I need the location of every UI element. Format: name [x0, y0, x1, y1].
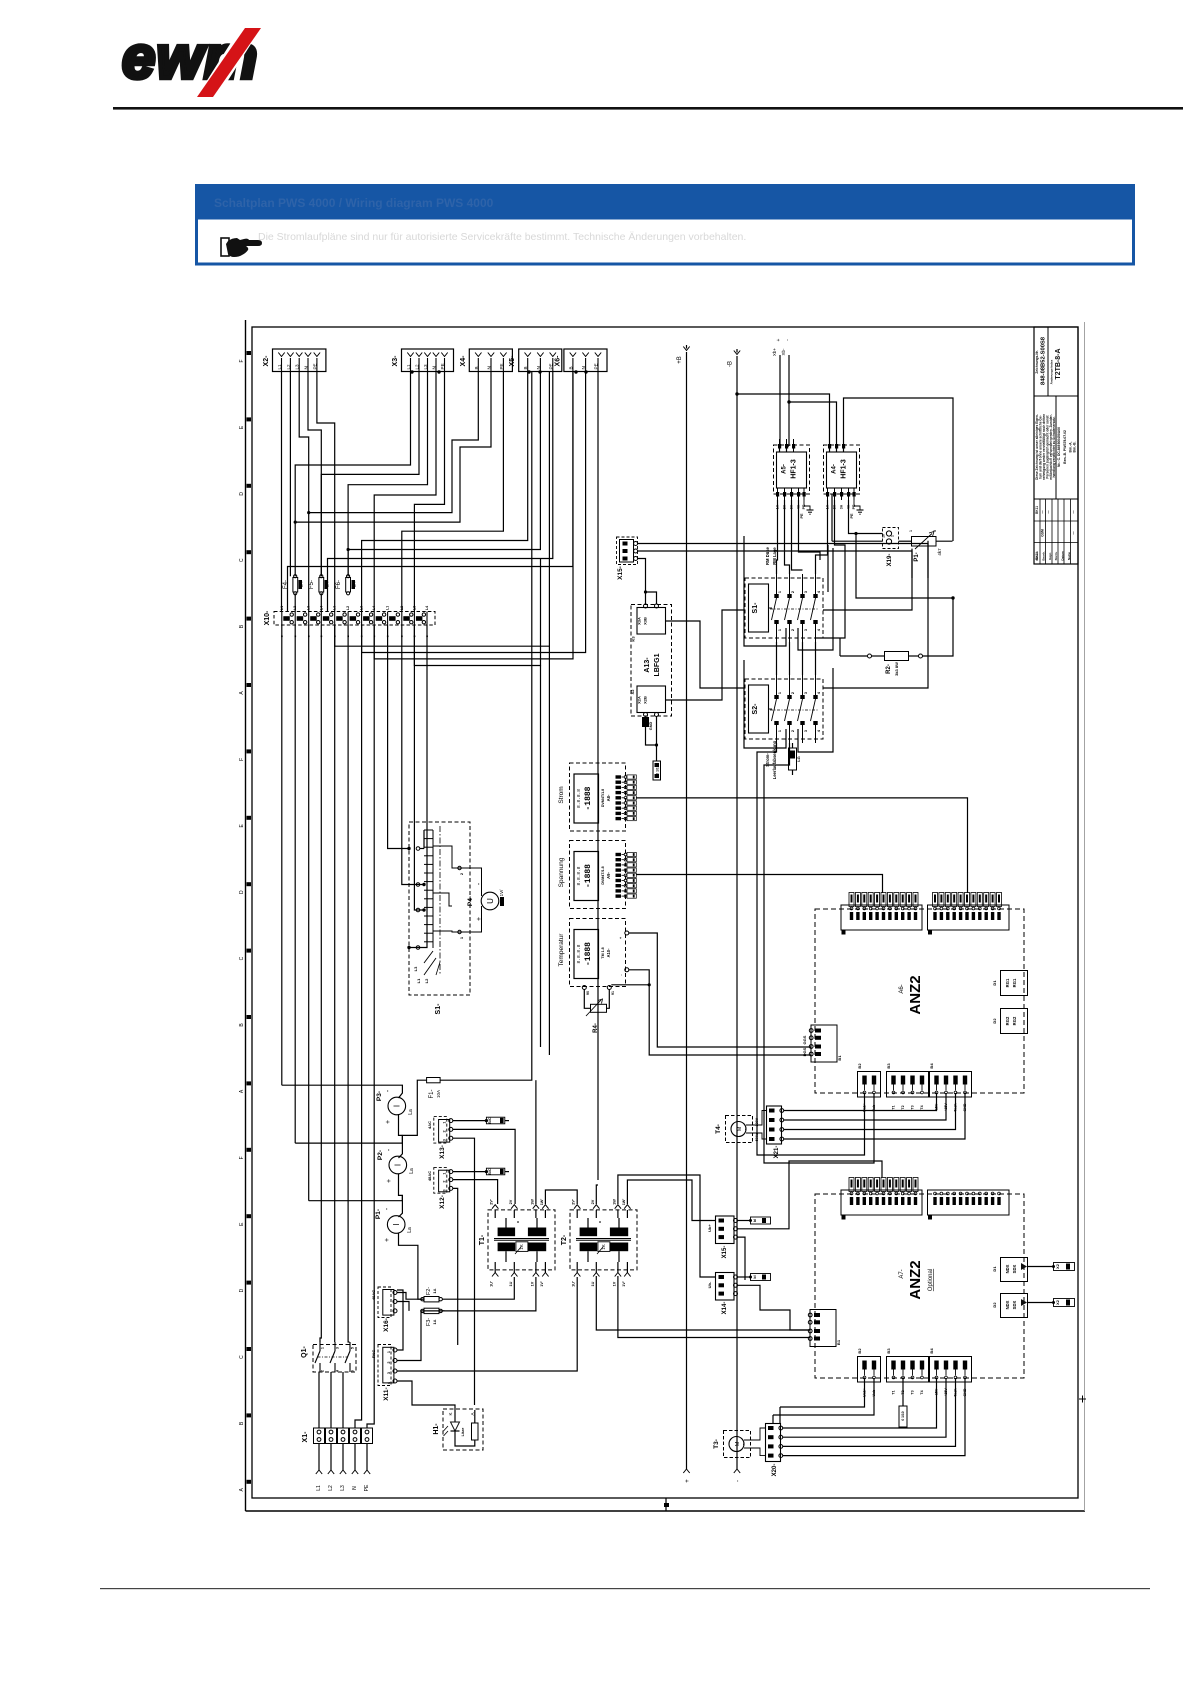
svg-text:SDX: SDX	[1012, 1300, 1017, 1309]
svg-text:X3-: X3-	[392, 355, 399, 367]
svg-text:T2: T2	[901, 1105, 905, 1109]
welding output +B rail	[677, 345, 691, 1483]
svg-text:K: K	[448, 1412, 453, 1415]
ANZ2 lower bottom connectors	[858, 1357, 881, 1383]
svg-text:D2: D2	[992, 1302, 997, 1308]
svg-text:L3: L3	[340, 1485, 346, 1491]
svg-text:T4-: T4-	[715, 1124, 722, 1134]
wires Temperatur display to ANZ	[629, 933, 811, 1047]
svg-text:1: 1	[778, 730, 782, 732]
svg-text:R4-: R4-	[593, 1023, 599, 1033]
pointing hand icon	[221, 238, 262, 257]
svg-text:B2: B2	[857, 1063, 862, 1069]
svg-text:3: 3	[443, 1139, 447, 1141]
svg-text:PE: PE	[364, 1484, 370, 1491]
svg-text:10A: 10A	[436, 1090, 441, 1098]
connector X13	[427, 1117, 515, 1405]
svg-text:91: 91	[611, 991, 615, 995]
svg-text:N: N	[432, 366, 437, 369]
wire loops around S2	[744, 660, 786, 748]
svg-text:2: 2	[443, 1181, 447, 1183]
svg-text:1: 1	[778, 692, 782, 694]
svg-text:F6-: F6-	[336, 580, 342, 589]
svg-text:848-08B52-S00S8: 848-08B52-S00S8	[1041, 336, 1047, 385]
svg-text:1: 1	[321, 1347, 325, 1349]
ground symbol at A5-	[800, 500, 814, 519]
svg-text:GGS: GGS	[802, 1035, 807, 1044]
svg-text:A10-: A10-	[606, 948, 611, 958]
svg-text:Ben.-B. PWS78.07.02: Ben.-B. PWS78.07.02	[1063, 430, 1067, 464]
resistor R2	[840, 596, 955, 676]
svg-text:D1: D1	[992, 980, 997, 986]
svg-text:NDX: NDX	[1005, 1300, 1010, 1309]
connector X4-	[460, 349, 513, 372]
svg-text:ANZ2: ANZ2	[907, 1260, 924, 1299]
svg-text:LBFG1: LBFG1	[654, 653, 661, 676]
svg-text:I: I	[393, 1105, 402, 1107]
svg-text:3A: 3A	[840, 504, 844, 509]
svg-text:L1: L1	[316, 1485, 322, 1491]
svg-text:Strom: Strom	[558, 786, 565, 803]
svg-text:2V: 2V	[591, 1199, 595, 1204]
svg-text:+: +	[384, 1238, 391, 1242]
svg-text:X2B: X2B	[643, 696, 648, 704]
svg-text:1U': 1U'	[490, 1281, 494, 1287]
potentiometer P1 (remote)	[909, 530, 942, 562]
svg-text:B1: B1	[836, 1339, 841, 1345]
junction dots on connector pins	[410, 370, 413, 373]
wires from X2 to X10	[281, 372, 283, 612]
indicator lamp H1	[433, 1409, 483, 1450]
svg-text:1V': 1V'	[540, 1281, 544, 1287]
footer rule	[100, 1588, 1150, 1589]
ANZ2 lower top pin header left	[841, 1178, 922, 1220]
svg-text:2: 2	[443, 1130, 447, 1132]
display board ANZ2 lower	[815, 1194, 1024, 1378]
fan T3 with connector X20	[713, 1424, 783, 1477]
svg-text:T3: T3	[911, 1390, 915, 1394]
svg-text:B4: B4	[929, 1063, 934, 1069]
svg-text:Q1-: Q1-	[301, 1345, 308, 1357]
svg-text:PE: PE	[594, 363, 599, 369]
svg-text:ANZ2: ANZ2	[907, 975, 924, 1014]
svg-text:o: o	[516, 1221, 520, 1223]
svg-text:B2: B2	[857, 1348, 862, 1354]
svg-text:1: 1	[443, 1173, 447, 1175]
svg-text:Datum: Datum	[1061, 551, 1065, 561]
svg-text:PE: PE	[850, 513, 854, 519]
svg-text:La: La	[407, 1227, 413, 1233]
svg-text:X15-: X15-	[617, 566, 624, 580]
svg-text:L2: L2	[424, 978, 429, 983]
wires below X10 stepping right	[335, 372, 550, 647]
svg-text:50Hz: 50Hz	[755, 1133, 759, 1142]
svg-text:+: +	[386, 1179, 393, 1183]
svg-text:T2TB-8-A: T2TB-8-A	[1055, 348, 1062, 379]
svg-text:3: 3	[933, 530, 937, 532]
svg-text:6: 6	[351, 1370, 355, 1372]
svg-text:PE: PE	[548, 363, 553, 369]
voltmeter P4	[458, 866, 504, 939]
wires from A13 to S1/S2	[646, 592, 657, 605]
svg-text:N: N	[581, 366, 586, 369]
svg-text:X16-: X16-	[383, 1318, 390, 1332]
svg-text:bl: bl	[753, 1275, 757, 1278]
svg-text:X21-: X21-	[774, 1146, 780, 1159]
svg-text:1: 1	[387, 1351, 391, 1353]
svg-text:X4-: X4-	[460, 355, 467, 367]
svg-text:A7-: A7-	[899, 1269, 905, 1278]
svg-text:T1: T1	[892, 1390, 896, 1394]
svg-text:+: +	[776, 338, 782, 341]
svg-text:1U: 1U	[591, 1281, 595, 1286]
svg-text:L2: L2	[415, 364, 420, 370]
svg-text:X3A: X3A	[637, 617, 642, 625]
svg-text:1V/: 1V/	[499, 889, 504, 897]
svg-text:3: 3	[804, 692, 808, 694]
HF filter board A5-	[774, 439, 810, 509]
svg-text:D1: D1	[992, 1266, 997, 1272]
svg-text:L2: L2	[286, 364, 291, 370]
svg-text:B4: B4	[929, 1348, 934, 1354]
digital display Temperatur	[558, 919, 629, 995]
svg-text:2: 2	[791, 629, 795, 631]
svg-text:X14-: X14-	[722, 1302, 728, 1315]
svg-text:F1-: F1-	[429, 1089, 435, 1098]
wires T2 to fan connectors	[627, 1180, 712, 1221]
svg-text:L3: L3	[295, 364, 300, 370]
svg-text:A5-: A5-	[782, 464, 788, 474]
X20 to ANZ2 lower wires	[783, 1378, 937, 1428]
svg-text:PE: PE	[312, 363, 317, 369]
svg-text:1V': 1V'	[622, 1281, 626, 1287]
ANZ2 upper bottom wires	[757, 743, 865, 1155]
sense wires Xb+ Xb-	[772, 338, 791, 446]
svg-text:2V': 2V'	[572, 1199, 576, 1205]
svg-text:Änderungs-Index: Änderungs-Index	[1050, 359, 1054, 384]
svg-text:X11-: X11-	[383, 1387, 390, 1400]
svg-text:2V: 2V	[509, 1199, 513, 1204]
svg-text:B3: B3	[886, 1348, 891, 1354]
digital display Spannung	[558, 841, 626, 909]
svg-text:~: ~	[744, 1127, 750, 1130]
svg-text:1V: 1V	[612, 1281, 616, 1286]
svg-text:F5-: F5-	[309, 580, 315, 589]
svg-text:B3: B3	[886, 1063, 891, 1069]
svg-text:X19-: X19-	[887, 554, 893, 567]
svg-text:B1: B1	[837, 1055, 842, 1061]
svg-text:3: 3	[387, 1372, 391, 1374]
svg-text:1: 1	[443, 1122, 447, 1124]
svg-text:3k3 8W: 3k3 8W	[894, 662, 899, 676]
fuse F6	[336, 575, 357, 595]
ANZ2 upper bottom connectors	[858, 1072, 881, 1098]
svg-text:bl: bl	[753, 1219, 757, 1222]
svg-text:C: C	[239, 558, 245, 562]
svg-text:4k7: 4k7	[937, 548, 942, 556]
svg-text:2: 2	[791, 730, 795, 732]
svg-text:handlung verpflichtet zu Schad: handlung verpflichtet zu Schadenersatz.	[1052, 416, 1056, 477]
ANZ2 upper top pin header left	[841, 893, 922, 935]
svg-text:A9-: A9-	[606, 872, 611, 879]
svg-text:X2A: X2A	[637, 696, 642, 704]
svg-text:X1-: X1-	[302, 1431, 309, 1443]
svg-text:-1888: -1888	[584, 786, 593, 810]
svg-text:L2: L2	[346, 606, 350, 610]
svg-text:2: 2	[387, 1361, 391, 1363]
svg-text:A4-: A4-	[832, 464, 838, 474]
svg-text:Name: Name	[1067, 552, 1071, 561]
svg-text:8.8.8.8: 8.8.8.8	[576, 944, 582, 963]
svg-text:Datum: Datum	[1035, 551, 1039, 561]
svg-text:Optional: Optional	[928, 1269, 934, 1291]
svg-text:DGS: DGS	[802, 1047, 807, 1056]
svg-text:D: D	[239, 1288, 245, 1292]
HF filter board A4-	[824, 439, 860, 509]
svg-text:RG2: RG2	[1005, 1016, 1010, 1025]
svg-text:DVM4T/1.8: DVM4T/1.8	[601, 789, 605, 807]
thermistor R4	[584, 983, 651, 1033]
svg-text:Bm.-B.: Bm.-B.	[1073, 441, 1077, 452]
svg-text:Litze: Litze	[461, 1428, 465, 1437]
wires from bundle to ANZ combs	[540, 666, 542, 1048]
svg-text:3: 3	[443, 1189, 447, 1191]
svg-text:Ub+: Ub+	[707, 1224, 712, 1232]
svg-text:48AC: 48AC	[427, 1171, 432, 1181]
svg-text:N: N	[352, 1486, 358, 1490]
svg-text:+B: +B	[677, 356, 683, 364]
svg-text:2: 2	[791, 591, 795, 593]
display output wires	[636, 798, 967, 893]
svg-text:RG1: RG1	[1012, 978, 1017, 987]
link connector below S2	[789, 743, 802, 770]
svg-text:L4: L4	[425, 606, 429, 610]
connector X16	[371, 1287, 424, 1332]
svg-text:L1: L1	[406, 364, 411, 370]
svg-text:GSM: GSM	[1041, 529, 1045, 537]
staircase wires X3/X4/X5 to X10	[295, 372, 410, 577]
wires to HF boards	[779, 446, 782, 452]
long vertical wire bundle	[281, 625, 283, 1085]
svg-text:L1: L1	[416, 978, 421, 983]
svg-text:L1: L1	[277, 364, 282, 370]
svg-text:PE: PE	[499, 363, 504, 369]
svg-text:X2-: X2-	[263, 355, 270, 367]
svg-text:H1-: H1-	[433, 1423, 440, 1435]
ammeter P3	[282, 1085, 414, 1135]
svg-text:S2-: S2-	[752, 703, 759, 715]
svg-text:M: M	[737, 1126, 743, 1131]
transformer T1-	[479, 1199, 555, 1287]
wires X19/P1 loop	[832, 540, 883, 542]
svg-text:X2: X2	[1056, 1300, 1060, 1305]
svg-text:L3: L3	[423, 364, 428, 370]
svg-text:P1-: P1-	[375, 1209, 382, 1219]
svg-text:La: La	[409, 1168, 415, 1174]
circuit breaker Q1	[301, 1342, 356, 1372]
svg-text:+: +	[385, 1120, 392, 1124]
connector X19	[882, 528, 899, 567]
svg-text:DVM4T/1.8: DVM4T/1.8	[601, 866, 605, 884]
svg-text:1: 1	[778, 629, 782, 631]
control board A13 LBFG1	[630, 604, 672, 761]
ANZ2 upper relay outputs	[992, 971, 1028, 1034]
svg-text:RG1: RG1	[1005, 978, 1010, 987]
svg-text:N: N	[304, 366, 309, 369]
connector X2-	[263, 349, 326, 372]
svg-text:1W: 1W	[530, 1199, 534, 1205]
svg-text:P1-: P1-	[914, 552, 920, 561]
ammeter P2	[377, 1148, 415, 1217]
svg-text:R2-: R2-	[886, 664, 892, 674]
svg-text:Die Stromlaufpläne sind nur fü: Die Stromlaufpläne sind nur für autorisi…	[258, 231, 746, 243]
svg-text:0 1/10: 0 1/10	[901, 1411, 905, 1420]
svg-text:T2-: T2-	[561, 1234, 568, 1245]
display board ANZ2 upper	[815, 909, 1024, 1093]
svg-text:PE: PE	[440, 363, 445, 369]
svg-text:-: -	[736, 1480, 742, 1482]
svg-text:5: 5	[351, 1347, 355, 1349]
svg-text:B: B	[568, 366, 573, 369]
svg-text:D2: D2	[992, 1018, 997, 1024]
svg-text:T1: T1	[892, 1105, 896, 1109]
svg-text:F: F	[239, 1156, 245, 1159]
svg-text:L1: L1	[386, 606, 390, 610]
svg-text:Xb-: Xb-	[781, 348, 786, 356]
svg-text:Schaltplan PWS 4000 / Wiring d: Schaltplan PWS 4000 / Wiring diagram PWS…	[214, 196, 494, 210]
transformer T2-	[561, 1199, 637, 1287]
ewm company logo	[122, 24, 263, 101]
ANZ2 upper top pin header right	[928, 893, 1010, 935]
svg-text:Zeichnungs-Nr.: Zeichnungs-Nr.	[1035, 350, 1039, 373]
svg-text:T3: T3	[911, 1105, 915, 1109]
ANZ2 upper left connector	[811, 1025, 837, 1062]
svg-text:D: D	[239, 890, 245, 894]
svg-text:-B: -B	[728, 361, 734, 367]
svg-text:X5-: X5-	[509, 355, 516, 367]
svg-text:2V': 2V'	[490, 1199, 494, 1205]
svg-text:SDX: SDX	[1012, 1264, 1017, 1273]
svg-text:X13-: X13-	[439, 1145, 446, 1159]
welding output -B rail	[728, 349, 742, 1482]
svg-text:1A: 1A	[432, 1288, 437, 1293]
svg-text:3: 3	[804, 591, 808, 593]
svg-text:3: 3	[804, 730, 808, 732]
connector X3-	[392, 349, 454, 372]
svg-text:S1-: S1-	[435, 1003, 442, 1015]
svg-text:X2: X2	[630, 689, 635, 695]
jumper plug below A13	[653, 761, 661, 780]
svg-text:8.8.8.8: 8.8.8.8	[576, 866, 582, 885]
svg-text:4AC: 4AC	[427, 1121, 432, 1129]
fuse F2	[421, 1277, 515, 1302]
svg-text:P4-: P4-	[467, 896, 474, 906]
connector X14 fan supply	[707, 1273, 810, 1331]
svg-text:2: 2	[321, 1370, 325, 1372]
ANZ2 lower bottom wires	[780, 1378, 865, 1407]
svg-text:PNC: PNC	[371, 1350, 376, 1359]
ground symbol at A4-	[850, 500, 864, 519]
svg-text:S1-: S1-	[752, 602, 759, 614]
title block	[1034, 327, 1078, 564]
svg-text:C: C	[239, 956, 245, 960]
svg-text:X20-: X20-	[772, 1464, 778, 1477]
svg-text:T4: T4	[920, 1105, 924, 1109]
svg-text:B/C: B/C	[488, 1117, 492, 1124]
wire loops around S1	[744, 536, 786, 646]
svg-text:1A: 1A	[432, 1319, 437, 1324]
rotary switch S1-	[745, 546, 823, 642]
svg-text:B/C: B/C	[488, 1168, 492, 1175]
tap switch S1	[407, 822, 470, 1014]
drawing frame	[239, 320, 1086, 1511]
svg-text:3: 3	[804, 629, 808, 631]
connector X15 control	[617, 537, 929, 605]
svg-text:TM 1.8: TM 1.8	[601, 947, 605, 958]
terminal strip X10	[264, 606, 435, 637]
svg-text:Temperatur: Temperatur	[558, 933, 565, 967]
svg-text:N: N	[536, 366, 541, 369]
svg-text:X12-: X12-	[439, 1195, 446, 1209]
svg-text:NDX: NDX	[1005, 1264, 1010, 1273]
ANZ2 lower relay outputs with wires	[992, 1258, 1075, 1318]
svg-text:U: U	[486, 898, 495, 904]
svg-text:X2: X2	[1056, 1264, 1060, 1269]
blue heading bar	[195, 184, 1135, 218]
svg-text:o: o	[598, 1221, 602, 1223]
svg-text:-1888: -1888	[584, 942, 593, 966]
svg-text:1: 1	[778, 591, 782, 593]
svg-text:C: C	[239, 1355, 245, 1359]
svg-text:8.8.8.8: 8.8.8.8	[576, 789, 582, 808]
ANZ2 lower top pin header right	[928, 1190, 1010, 1220]
svg-text:1W': 1W'	[540, 1199, 544, 1206]
svg-text:90: 90	[586, 991, 590, 995]
jumper below lower ANZ2	[902, 1378, 904, 1406]
svg-text:2: 2	[791, 692, 795, 694]
fan T4 with connector X21	[715, 1106, 784, 1158]
connector X6-	[554, 349, 607, 372]
fuse F4	[283, 575, 304, 595]
svg-text:K3: K3	[631, 636, 636, 642]
digital display Strom	[558, 763, 626, 831]
svg-text:T1-: T1-	[479, 1234, 486, 1245]
svg-text:Norm.: Norm.	[1054, 552, 1058, 561]
svg-text:Spannung: Spannung	[558, 857, 565, 887]
svg-text:N: N	[487, 366, 492, 369]
svg-text:Xb+: Xb+	[772, 348, 777, 357]
rotary switch S2-	[745, 675, 823, 743]
svg-text:T3-: T3-	[713, 1439, 720, 1449]
fuse F5	[309, 575, 330, 595]
svg-text:RM Düse: RM Düse	[765, 546, 770, 565]
svg-text:Gepr.: Gepr.	[1048, 552, 1052, 560]
svg-text:10: 10	[882, 534, 886, 538]
svg-text:GND: GND	[649, 722, 653, 731]
fuse F3	[421, 1277, 536, 1326]
fuse F1	[399, 372, 532, 1158]
X21 to ANZ2 wires	[784, 1093, 937, 1111]
ANZ2 lower left connector	[810, 1310, 836, 1347]
svg-text:L2: L2	[328, 1485, 334, 1491]
svg-text:I: I	[392, 1223, 401, 1225]
connector X5-	[509, 349, 562, 372]
svg-text:3: 3	[336, 1347, 340, 1349]
bundle feeds to P meters	[295, 1135, 402, 1143]
header rule	[113, 107, 1183, 110]
svg-text:HF1-3: HF1-3	[791, 459, 798, 479]
svg-text:RG2: RG2	[1012, 1016, 1017, 1025]
